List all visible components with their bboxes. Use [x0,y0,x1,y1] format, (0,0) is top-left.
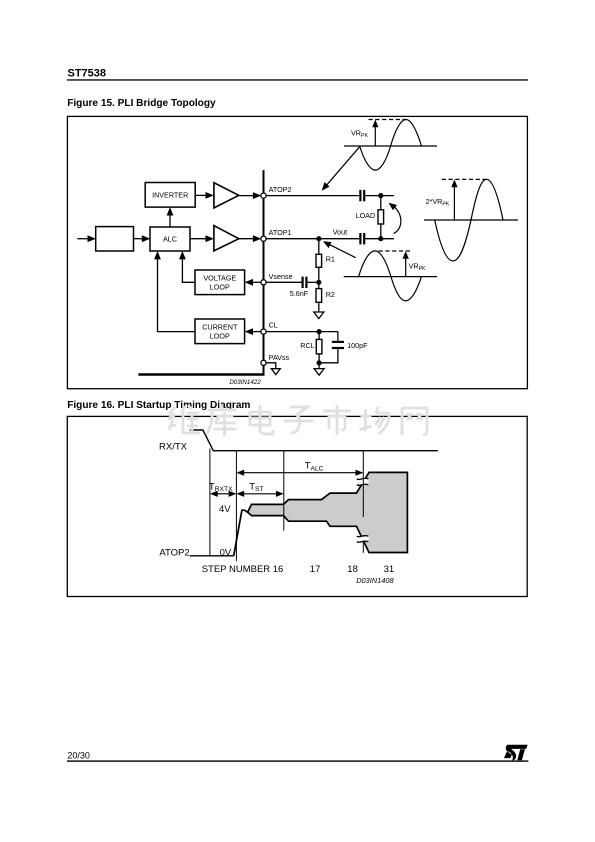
wire VOLTAGE LOOP to ALC [179,251,195,282]
ground (below R2) [314,312,324,319]
svg-text:18: 18 [347,564,358,575]
svg-text:R2: R2 [326,290,335,299]
logo S lower-left wedge [504,751,512,758]
node Vsense (open) [261,280,266,285]
svg-text:20/30: 20/30 [67,751,90,761]
resistor R1 [316,239,335,268]
figure 15 frame [67,116,527,388]
svg-text:INVERTER: INVERTER [152,190,188,199]
node LOAD top junction [378,193,383,198]
wire ALC to buffer A2 [190,235,214,242]
tick line 4 (step 18) [362,451,364,517]
header rule [67,79,528,80]
wire A1 to node ATOP2 [239,192,261,199]
wire CURRENT LOOP to ALC [154,251,195,332]
wire INVERTER to buffer A1 [195,192,214,199]
capacitor C4 100pF [319,332,368,363]
watermark char 5 [323,405,351,435]
watermark char 7 [402,408,427,435]
sine wave 2 (Vout waveform) [344,251,437,301]
arrow sine2 to Vout node [323,241,356,258]
ground return rail [138,373,264,375]
wire CL node to CURRENT LOOP [245,328,262,335]
svg-text:CURRENT: CURRENT [202,323,238,332]
svg-text:TRXTX: TRXTX [209,481,233,493]
svg-text:VRPK: VRPK [351,128,368,139]
node R1/R2 junction [316,280,321,285]
block U0 (unlabeled input block) [96,227,134,251]
bus vertical rail [263,170,265,374]
svg-text:16: 16 [273,564,284,575]
wire RX/TX trace [190,430,438,451]
watermark char 6 [360,407,391,434]
capacitor C3 5.6nF [290,277,309,299]
break gap top [356,478,369,485]
svg-text:CL: CL [269,321,278,330]
wire C2 to LOAD bottom [365,238,394,240]
tick line 3 (step 17) [283,451,285,531]
wire A2 to node ATOP1 [239,235,261,242]
sine wave 1 (ATOP2 waveform) [344,120,437,171]
watermark char 4 [284,407,314,433]
tick line 2 (step 16) [235,451,237,561]
arrow TALC span [236,470,363,476]
dashed peak line (sine 3) [442,178,487,180]
watermark char 1 [168,405,200,434]
watermark (light gray CJK-style marks) [168,405,427,436]
ground (below RCL) [314,369,324,376]
svg-text:0V: 0V [220,547,232,558]
svg-text:LOOP: LOOP [210,332,230,341]
wire U0 to ALC [134,235,151,242]
svg-text:RX/TX: RX/TX [159,442,188,453]
wire ATOP2 0V baseline [190,555,235,557]
curved arrow around LOAD [389,203,401,234]
svg-text:TALC: TALC [305,461,324,473]
node Vout [316,236,321,241]
watermark char 3 [250,405,273,434]
wire input arrow [77,235,96,242]
node RCL top [317,329,322,334]
wire CL line [264,331,338,333]
svg-text:17: 17 [310,564,321,575]
node ATOP2 (open) [261,193,266,198]
wire C1 to LOAD top [365,195,394,197]
break gap bottom [356,536,369,543]
arrow VRPK measure (sine 2) [403,251,409,277]
svg-text:5.6nF: 5.6nF [290,289,309,298]
wire R2 to ground [318,302,320,312]
svg-text:RCL: RCL [300,341,314,350]
block INVERTER [145,183,195,208]
block VOLTAGE LOOP [195,270,245,295]
capacitor C1 (ATOP2 coupling) [359,190,365,201]
ground (PAVss) [271,369,280,375]
dashed peak line (sine 1) [369,119,407,121]
svg-text:VRPK: VRPK [409,262,426,273]
arrow TST span [236,491,283,497]
wire RCL bottom to ground [318,363,320,369]
wire ATOP1 line [264,238,360,240]
wire Vsense node to VOLTAGE LOOP [245,279,262,286]
wire PAVss to ground [264,363,276,369]
block CURRENT LOOP [195,319,245,344]
svg-text:2*VRPK: 2*VRPK [426,197,450,208]
node PAVss (open) [261,360,266,365]
svg-text:STEP NUMBER: STEP NUMBER [202,564,271,575]
figure 16 frame [67,416,527,596]
svg-text:LOAD: LOAD [356,211,376,220]
tick line 4 lower segment [362,541,364,553]
footer rule [67,760,528,761]
capacitor C2 (ATOP1 coupling) [359,233,365,244]
svg-text:TST: TST [249,481,263,493]
logo T stem [517,749,525,760]
wire C3 to R1/R2 junction [308,281,319,283]
svg-text:4V: 4V [219,504,231,515]
wire R1 to junction [318,267,320,282]
ATOP2 startup envelope (gray) [248,472,408,552]
resistor RCL [300,332,322,363]
svg-text:Vsense: Vsense [269,272,293,281]
arrow 2*VRPK measure [451,179,457,220]
svg-text:D03IN1408: D03IN1408 [356,576,394,585]
tick line 1 (RXTX fall) [209,449,211,556]
node LOAD bottom junction [378,236,383,241]
arrow TRXTX span [210,491,237,497]
arrow VRPK measure (sine 1) [372,120,378,147]
svg-text:LOOP: LOOP [210,283,230,292]
ST logo [504,745,528,761]
node CL (open) [261,329,266,334]
node RCL bottom [317,360,322,365]
svg-text:Figure 15. PLI Bridge Topology: Figure 15. PLI Bridge Topology [67,98,216,109]
op-amp A1 (buffer) [214,183,239,208]
node ATOP1 (open) [261,236,266,241]
block ALC [150,227,190,251]
svg-text:ST7538: ST7538 [68,68,107,80]
svg-text:ATOP2: ATOP2 [269,185,292,194]
dashed peak line (sine 2) [379,250,412,252]
wire ATOP2 rising edge [234,510,248,556]
svg-text:D03IN1422: D03IN1422 [229,379,261,386]
wire ALC to INVERTER [167,207,174,227]
svg-text:31: 31 [384,564,395,575]
svg-text:100pF: 100pF [347,341,368,350]
svg-text:VOLTAGE: VOLTAGE [203,274,236,283]
logo S swoosh [506,745,528,761]
svg-text:ALC: ALC [163,235,177,244]
svg-text:R1: R1 [326,255,335,264]
arrow sine1 to ATOP2 wire [322,147,360,191]
wire Vsense to C3 [264,281,302,283]
svg-text:ATOP2: ATOP2 [159,547,189,558]
op-amp A2 (buffer) [214,226,239,251]
resistor LOAD [356,196,384,239]
wire ATOP2 line [264,195,360,197]
svg-text:Vout: Vout [333,227,347,236]
resistor R2 [316,282,335,302]
sine wave 3 (load voltage waveform) [424,179,518,261]
svg-text:PAVss: PAVss [269,353,290,362]
watermark char 2 [207,405,237,436]
svg-text:ATOP1: ATOP1 [269,228,292,237]
